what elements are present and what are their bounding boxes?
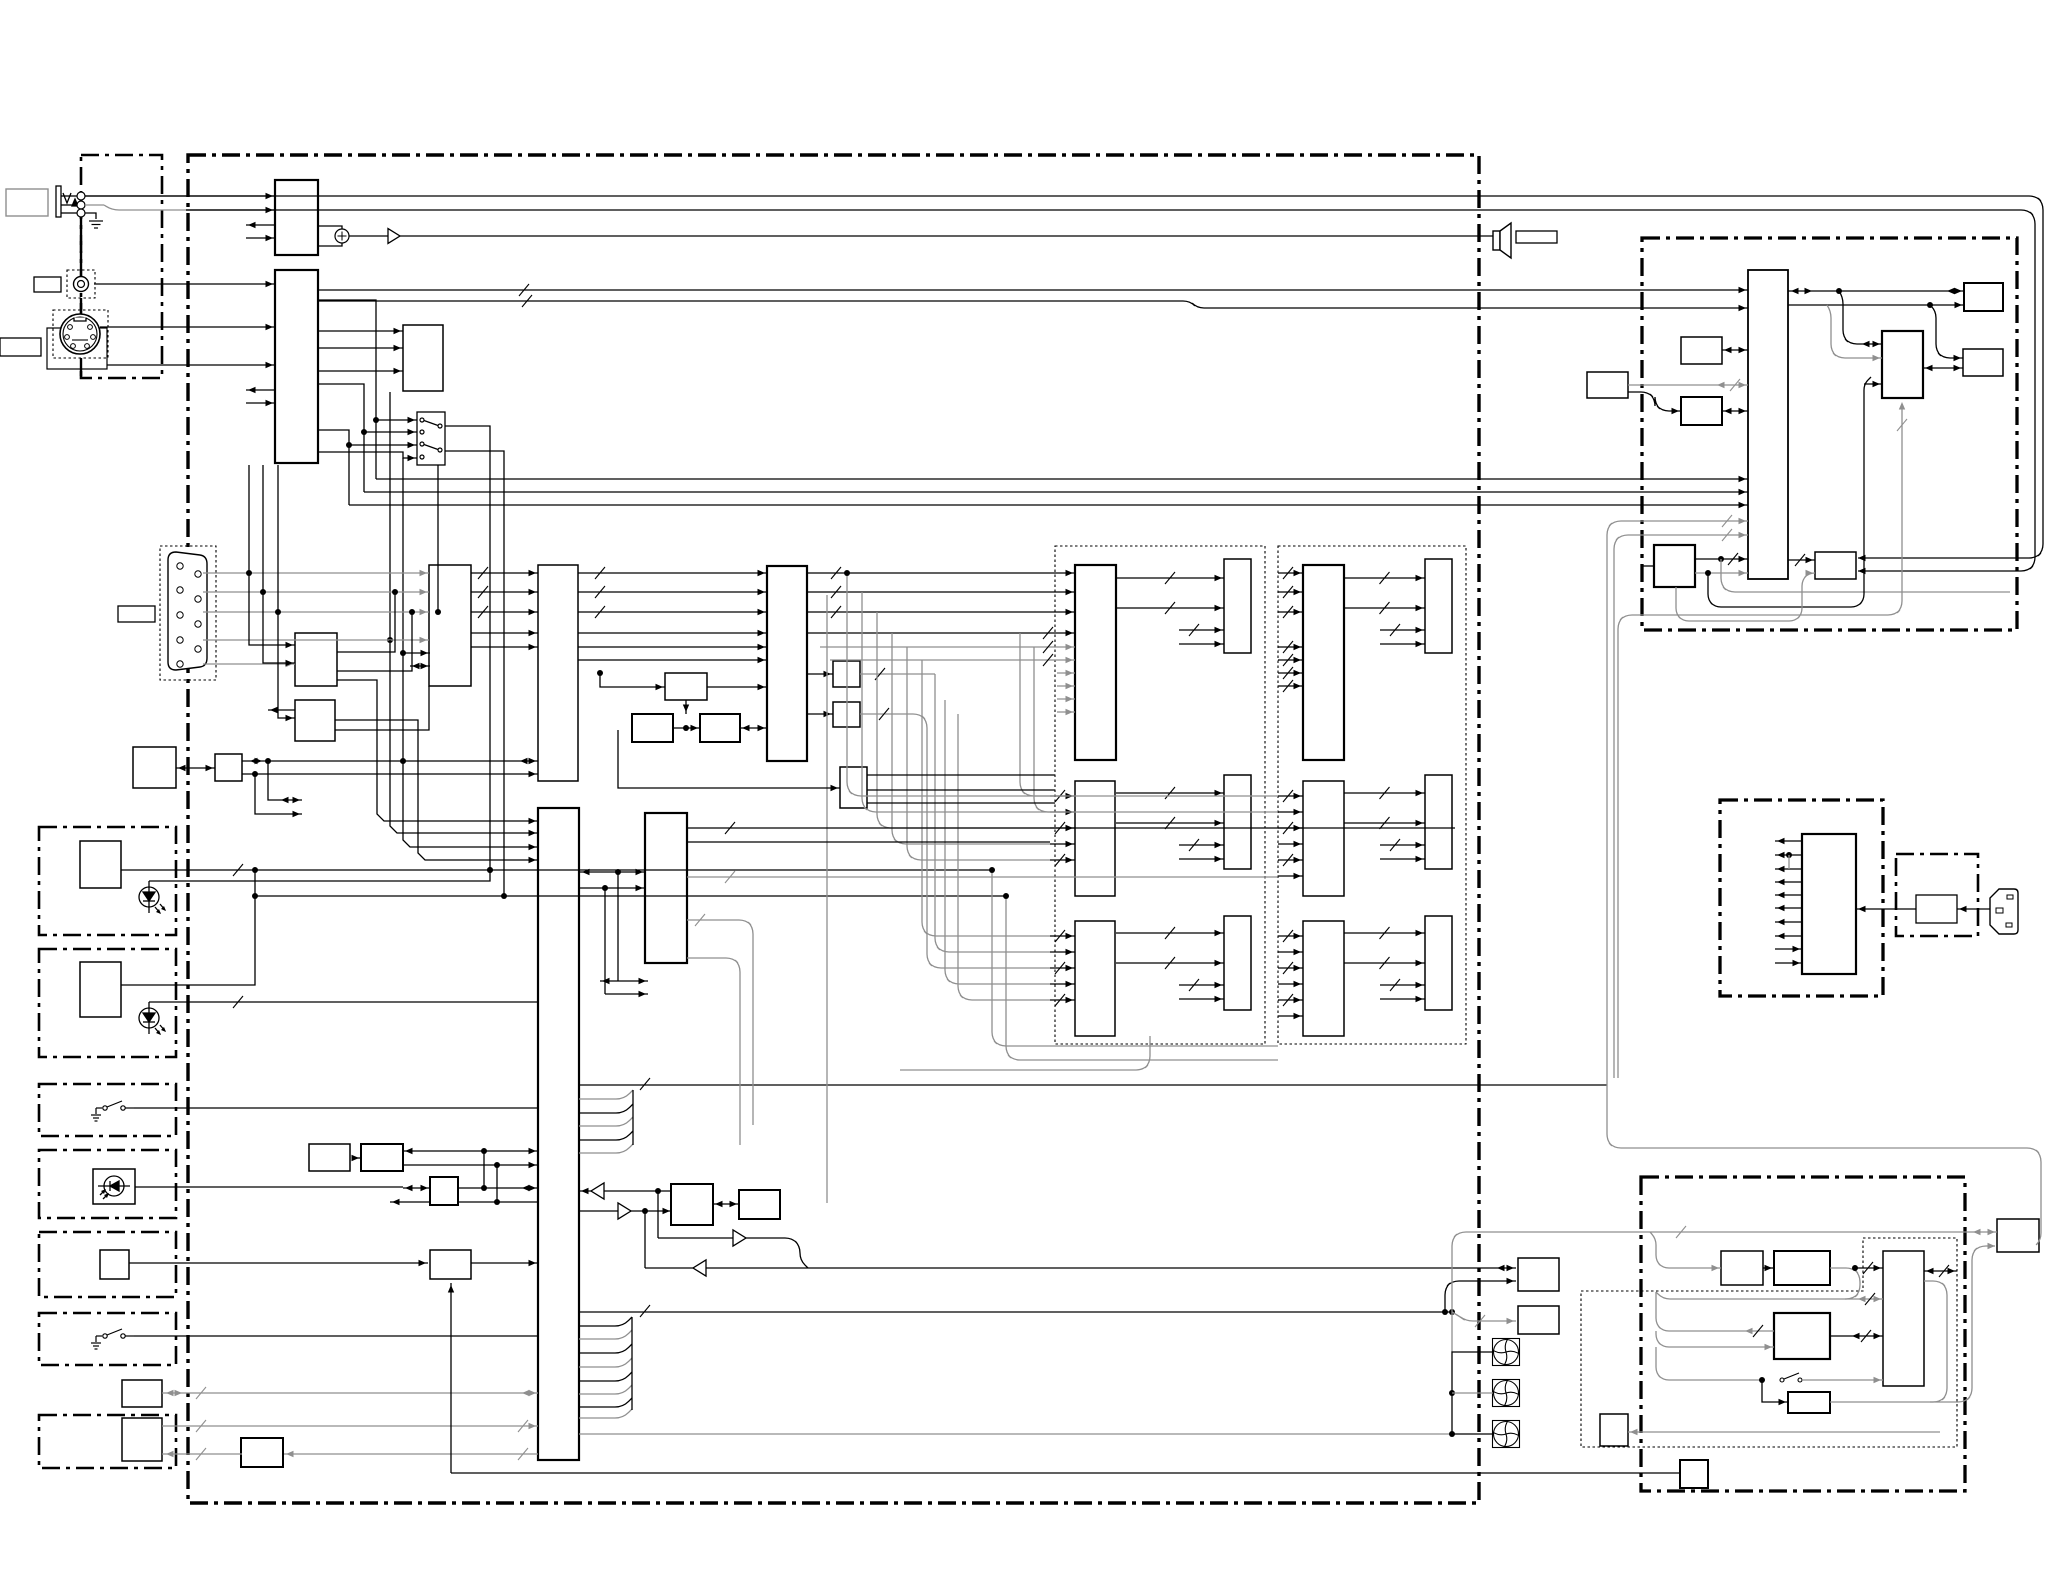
wire sdram drop b [604,888,606,994]
AC switch board outline [1896,854,1978,936]
wire sync h to mcu [390,640,538,833]
wire imgproc to drv [807,591,1075,593]
s-video mini-DIN jack J3 [60,314,100,354]
wire fan riser [1451,1312,1453,1352]
wire scaler to imgproc [578,611,767,613]
wire g2 in stub b [1278,875,1303,877]
menu key block A [309,1144,350,1171]
wire sw2 to mcu [134,1335,538,1337]
wire IC201 to sum node 2 [318,243,342,246]
wire clock to imgproc [740,727,767,729]
wire IC702 pin stub [1864,383,1882,385]
wire btn link [352,1157,361,1159]
wire drv to panel a [1116,932,1224,934]
wire g1 row in stub [1050,859,1075,861]
wire sync v to mcu [403,653,538,847]
wire sdram drop a [617,872,619,981]
wire bundle2 line [579,1372,632,1381]
wire scaler to imgproc 2 [578,646,767,648]
wire sw to ballast [1802,1379,1883,1381]
PLL IC404 [665,673,707,700]
wire adc pair [410,665,430,667]
LED D1 [139,881,166,914]
jack sleeve contact [77,209,85,217]
wire sum to buffer [349,235,388,237]
wire audio loop outer [85,196,2043,558]
wire fan3 stub [1452,1433,1493,1435]
rx line buffer [591,1183,604,1199]
wire ctl to ballast [1830,1335,1883,1337]
D-sub pin 9 [177,661,183,667]
wire buffer out a [860,673,935,675]
fan FAN1 [1493,1339,1520,1366]
wire g2 in stub [1278,591,1303,593]
wire to eeprom [249,465,295,645]
wire g1 lower stub [1057,698,1075,700]
wire conv to ballast [1855,1267,1883,1269]
wire connector chain [80,217,82,270]
switch board 1 outline [39,1084,176,1136]
wire bus long y1312 [579,1311,1452,1313]
wire bidir pair IC201 [246,224,275,226]
power regulator IC801 [1802,834,1856,974]
wire vert x484 [483,1151,485,1188]
power supply board outline [1720,800,1883,996]
wire sw in 4 [318,452,417,458]
control CPU IC701 [1748,270,1788,579]
indicator driver 2 [80,962,121,1017]
LCD panel R [1224,559,1251,653]
wire net stub [1642,565,1654,567]
fan FAN2 [1493,1380,1520,1407]
wire xtal cpu [1722,349,1748,351]
serial xcvr IC504 [739,1190,780,1219]
wire stub panel a [1179,984,1224,986]
wire audio loop inner [186,210,2035,571]
label box headphone [6,189,48,216]
clock module [1587,372,1628,398]
wire scaler to imgproc 2 [578,632,767,634]
wire eeprom to mcu [337,680,538,821]
wire reg to acsw [1856,908,1916,910]
wire sdram down a [687,920,753,1125]
wire lvds out b [867,789,1055,791]
audio/control board outline [1642,238,2017,630]
wire drv to panel a [1344,792,1425,794]
wire serial branch [1445,1281,1516,1312]
wire mesh f [922,660,1050,936]
wire video path a [318,300,376,479]
wire uart link [713,1203,739,1205]
wire bus long y1085 [579,1084,1607,1086]
wire PLL to imgproc [707,686,767,688]
wire jack R to IC201 [186,209,275,211]
indicator board 2 outline [39,949,176,1057]
wire branch gray IC702 [1827,305,1882,358]
wire stub panel b [1380,643,1425,645]
wire g2 in stub [1278,611,1303,613]
jack tip contact [77,192,85,200]
wire adc to scaler [471,591,538,593]
tx out buffer [733,1230,746,1246]
wire video bus b [318,301,1748,308]
wire sw out a [376,478,1748,480]
wire drv to panel r1b [1344,607,1425,609]
work RAM U704 [1963,349,2003,376]
remote sensor box [93,1169,135,1204]
wire mesh b [862,592,1050,812]
D-sub pin 7 [177,637,183,643]
control panel block [133,747,176,788]
wire buffer out b [860,714,927,750]
LCD drive block B outline [1278,546,1466,1044]
wire mesh h [927,750,1050,968]
wire jack ring stub [85,204,104,206]
AC inlet J801 [1990,889,2018,934]
wire g1 row in stub [1050,999,1075,1001]
wire a20 in b [390,1201,430,1203]
wire connector chain 2 [80,298,82,310]
wire led2 to mcu [149,1001,538,1003]
wire IC301 to IC302 c [318,370,403,372]
wire reset cpu [1722,410,1748,412]
video switch SW301 [417,412,445,465]
wire PLL to clockgen [685,700,687,714]
wire branch to RAM [1930,305,1963,358]
wire net to shifter [1676,573,1815,621]
buffer IC406 [833,661,860,687]
wire net down a [1721,559,2010,592]
wire branch b2 [1656,1292,1774,1331]
wire pwr in a [1775,948,1802,950]
companion IC702 [1882,331,1923,398]
wire branch b3 [1656,1331,1774,1347]
wire tx out loop [658,1238,808,1268]
audio buffer amp [388,229,400,244]
lamp cover switch S2 [91,1329,134,1349]
temp sensor 1 [1518,1258,1559,1291]
wire ballast right [1924,1270,1957,1272]
wire IC702 RAM link [1923,367,1963,369]
D-sub pin 6 [195,621,201,627]
D-sub 9 connector J4 body [168,552,207,670]
wire eeprom bus [337,592,395,652]
wire pwr branch [1788,855,1790,869]
wire stub panel b [1380,858,1425,860]
wire g2 in stub b [1278,1015,1303,1017]
wire cpu to shifter [1788,559,1815,561]
RCA jack J2 [74,277,89,292]
wire serial long [645,1267,1516,1269]
wire g1 row in stub [1050,827,1075,829]
wire mesh i [945,700,1050,984]
wire ind2 vertical [121,871,255,985]
connector CN1 [122,1380,162,1407]
wire bundle2 line [579,1317,632,1326]
wire g2 in stub b [1278,999,1303,1001]
jack ring contact [77,201,85,209]
LCD drive block A outline [1055,546,1265,1044]
panel driver IC601 [1075,565,1116,760]
main board outline [188,155,1479,1503]
wire pole down b [445,451,504,896]
wire sw down c [437,465,439,612]
LCD panel R2 [1425,559,1452,653]
wire branch to IC702 [1839,291,1882,344]
wire pll feed [600,673,665,687]
wire g1 in4 [820,646,1075,648]
ground jack [89,221,103,228]
wire bundle2 line [579,1398,632,1407]
wire mesh k [992,870,1278,1046]
wire drv to panel a [1116,792,1224,794]
speaker SP1 [1493,223,1511,258]
wire sw out c [349,504,1748,506]
network IC704 [1654,545,1695,587]
sync separator IC302 [403,325,443,391]
serial driver IC503 [671,1184,713,1225]
RCA jack J2 outline [67,270,95,298]
wire reset in [268,709,295,711]
wire keyint a [403,1150,538,1152]
thermal sensor box [1600,1414,1628,1446]
wire up to IC702 pin [1708,377,1871,607]
buffer IC407 [833,702,860,727]
wire net to cpu [1695,558,1748,560]
wire g2 in stub b [1278,827,1303,829]
wire fan feed [579,1433,1452,1435]
wire g1 row in stub [1050,967,1075,969]
wire drv to panel r1b [1116,607,1224,609]
rx in buffer [693,1260,706,1276]
wire jack L to IC201 [85,195,275,197]
label box video in [34,277,61,292]
wire stub panel b [1179,858,1224,860]
lamp unit [1997,1219,2039,1252]
wire reset out [335,686,429,730]
wire pwr out [1775,921,1802,923]
wire IC301 to IC302 b [318,347,403,349]
D-sub pin 8 [195,646,201,652]
xtal X401 [632,714,673,742]
wire scaler to imgproc 3 [578,659,767,661]
wire g2 in stub b [1278,983,1303,985]
wire vertical x827 [826,595,828,1203]
wire mcu tx [579,1210,672,1212]
D-sub pin 5 [177,612,183,618]
system microcontroller IC501 [538,808,579,1460]
sensor board outline [39,1150,176,1218]
ballast control IC902 [1774,1313,1830,1359]
LCD panel B [1224,916,1251,1010]
wire to ballast b [1845,1298,1883,1300]
wire sensor out [135,1186,403,1188]
wire g1 row in stub [1050,843,1075,845]
wire cpu flash bus b [1788,304,1964,306]
wire bus stub a [600,980,648,982]
wire g1 row in stub [1050,983,1075,985]
menu key block B [361,1144,403,1171]
wire stub panel b [1179,998,1224,1000]
wire RCA video to IC301 [94,283,275,285]
wire to feedback [1762,1380,1788,1402]
wire drv to panel b [1344,962,1425,964]
wire vsync [203,663,295,665]
wire conv loop [1656,1268,1860,1299]
wire mcu-sdram b [579,887,645,889]
LVDS TX IC408 [840,767,867,808]
wire branch b4 [1656,1347,1762,1380]
wire a20 out [458,1187,538,1189]
wire panel to keyif [176,767,215,769]
wire s-video Y to IC301 [100,326,275,328]
image processor IC403 [767,566,807,761]
wire long y828 [687,827,1455,829]
indicator board 1 outline [39,827,176,935]
wire g2 in stub [1278,572,1303,574]
wire stub panel a [1380,984,1425,986]
wire stub panel a [1179,844,1224,846]
wire vert x658 [657,1191,659,1238]
wire g2 in stub b [1278,951,1303,953]
wire fan chain [1452,1352,1493,1434]
wire bundle2 line [579,1330,632,1339]
wire g1 lower stub [1057,672,1075,674]
wire to buffer IC407 [807,713,833,715]
wire led1 line [149,871,490,881]
wire rgb B [203,611,429,613]
wire g1 in5 [830,659,1075,661]
wire lvds out c [867,802,1055,804]
panel driver IC605 [1303,781,1344,896]
wire adc to scaler [471,611,538,613]
wire mesh e [907,647,1050,860]
wire stub panel a [1380,844,1425,846]
wire drv to panel b [1116,962,1224,964]
wire reset to mcu [335,720,538,860]
wire long y877 [687,876,1277,878]
wire cpu lamp path [1607,521,2041,1245]
igniter drive [1721,1251,1763,1285]
wire connector chain 3 [80,358,82,378]
wire pwr out [1775,881,1802,883]
wire bundle1 line [579,1131,633,1140]
wire audio out to speaker [400,235,1493,237]
tx line buffer [618,1203,631,1219]
wire g2 in stub [1278,646,1303,648]
wire g1 lower stub [1057,685,1075,687]
wire g1 lower stub [1057,711,1075,713]
ballast converter [1774,1251,1830,1285]
wire lamp interlock [451,1472,1680,1474]
panel driver IC604 [1303,565,1344,760]
wire ind1 long [121,869,992,871]
wire sync v [403,458,430,653]
wire keyif bus b [242,773,538,775]
lamp connector [1680,1460,1708,1488]
wire video bus a [318,289,1748,291]
wire bundle1 line [579,1117,633,1126]
wire cpu flash bus [1788,290,1964,292]
label box rgb in [118,606,155,622]
wire pwr out [1775,854,1802,856]
wire pwr in b [1775,962,1802,964]
wire key vert [450,1283,452,1473]
EEPROM IC303 [295,633,337,686]
wire key to keyint [129,1262,428,1264]
audio amp IC201 [275,180,318,255]
wire sw1 to mcu [134,1107,538,1109]
wire mesh j [958,714,1050,1000]
wire mesh a [847,573,1050,796]
wire vert x497 [496,1165,498,1202]
wire g2 in stub b [1278,811,1303,813]
wire y1070 [900,1036,1150,1070]
wire g2 in stub [1278,659,1303,661]
wire cpu bus path [1614,535,1748,1078]
wire bundle1 line [579,1104,633,1113]
level shifter IC705 [1815,552,1856,579]
D-sub pin 3 [177,587,183,593]
s-video mount plate [47,328,107,369]
wire lvds out a [867,774,1055,776]
wire cn2 to mcu [162,1425,538,1427]
LCD panel G [1224,775,1251,869]
wire bundle1 vert [632,1090,634,1145]
wire bundle2 line [579,1358,632,1367]
wire thermal [1628,1431,1940,1433]
xtal X701 [1681,337,1722,364]
wire g2 in stub b [1278,935,1303,937]
wire hsync [203,639,429,641]
reset IC304 [295,700,335,741]
wire fan2 stub [1452,1392,1493,1394]
wire keyif stub a [268,761,302,800]
wire drv to panel a [1344,932,1425,934]
ballast board outline [1641,1177,1965,1491]
LED D2 [139,1002,166,1035]
scaler IC402 [538,565,578,781]
wire mesh g [935,674,1050,952]
key switch box [100,1250,129,1279]
wire scaler to imgproc [578,591,767,593]
flash memory U703 [1964,283,2003,311]
wire video path c [318,430,349,505]
wire g2 in stub b [1278,859,1303,861]
wire stub panel b [1380,998,1425,1000]
D-sub pin 1 [177,563,183,569]
wire a20 in [403,1187,430,1189]
wire eeprom bus b [337,612,412,671]
wire ballast fb [1924,1281,1947,1402]
wire pwr out [1775,935,1802,937]
wire mcu-sdram a [579,871,645,873]
wire video path b [318,384,364,492]
wire g1 row in stub [1050,811,1075,813]
wire sw in 2 [364,431,417,433]
ballast dotted outline [1581,1238,1957,1447]
RCA jack center pin [78,281,85,288]
headphone jack J1 [56,186,78,217]
wire g2 in stub b [1278,843,1303,845]
wire net to cpu b [1695,572,1748,574]
wire g1 row in stub [1050,951,1075,953]
A/D converter IC401 [429,565,471,686]
wire mesh c [877,612,1050,828]
D-sub pin 4 [195,596,201,602]
wire sw in 1 [376,419,417,421]
wire ign to conv [1763,1267,1774,1269]
